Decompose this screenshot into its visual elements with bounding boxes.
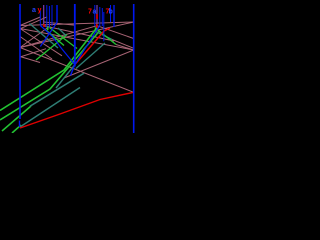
svg-text:a: a [93, 9, 97, 16]
blue worldline O114 [113, 5, 115, 27]
green tail left A [50, 28, 78, 49]
teal steep left [56, 65, 75, 89]
worldline B1 [39, 11, 41, 26]
green worldline G3 [2, 106, 31, 131]
signal A down2 [20, 29, 62, 56]
worldline M1 [103, 12, 105, 41]
green worldline G2 [0, 32, 99, 121]
signal L3 up [20, 49, 46, 57]
green tail right [95, 28, 116, 45]
red mark right cluster low [96, 24, 98, 28]
svg-text:7: 7 [88, 9, 92, 16]
blue worldline center [74, 4, 76, 67]
blue worldline left [19, 4, 21, 119]
left cluster verticals [40, 5, 52, 28]
signal D down-left [20, 26, 97, 48]
teal tail left X [58, 28, 66, 36]
right cluster verticals [95, 5, 111, 41]
signal E reflected [64, 50, 134, 78]
green mark cluster bottom [47, 27, 49, 31]
green tail left B [46, 30, 64, 46]
purple worldline J1 [96, 5, 98, 26]
worldline L1 [101, 8, 103, 26]
purple worldline C1 [43, 5, 45, 24]
svg-text:y: y [38, 7, 42, 14]
red long worldline [20, 92, 134, 128]
signal A down [20, 29, 134, 51]
signal A up1 [20, 17, 40, 26]
red steep worldline [75, 28, 110, 64]
signal M flat [44, 22, 76, 25]
right labels [88, 9, 113, 16]
blue diagonal below vertex [71, 65, 75, 76]
blue worldline right [133, 4, 135, 133]
teal worldline A [20, 88, 80, 128]
teal tail 0 left [30, 24, 59, 49]
signal C up steep [20, 26, 50, 48]
signal C down-right [44, 26, 114, 41]
worldline E1 [48, 6, 50, 28]
worldline I1 [94, 5, 96, 26]
worldline F1 [51, 5, 53, 26]
teal steep right [76, 43, 105, 69]
svg-text:b: b [109, 9, 113, 16]
worldline D1 [46, 5, 48, 28]
blue diagonal left [40, 26, 74, 65]
signal B down [20, 48, 134, 93]
red mark at cluster C1 [43, 24, 45, 27]
background [0, 0, 141, 133]
signal B down2 [20, 37, 52, 60]
signal dg continuation [116, 45, 134, 51]
blue diagonal G2b [40, 23, 57, 47]
signal B up [20, 22, 134, 48]
green ascending gC [36, 35, 67, 61]
worldline N1 [110, 5, 112, 22]
rosy light-signal lattice [20, 17, 134, 92]
signal flat0 [20, 22, 134, 26]
signal L3 down [20, 57, 40, 63]
green worldline G3b [12, 125, 21, 133]
blue diagonal right [75, 25, 100, 65]
signal dt continuation [112, 40, 134, 49]
green worldline G1 [0, 28, 97, 111]
signal A up2 [20, 17, 47, 29]
red mark right cluster [96, 14, 98, 19]
svg-text:a: a [32, 7, 36, 14]
left labels [32, 7, 42, 14]
teal worldline B [30, 73, 84, 106]
blue worldline G57 [56, 5, 58, 23]
worldline K1 [99, 7, 101, 26]
signal D down-right [97, 26, 134, 39]
teal tail right [95, 31, 112, 40]
blue stub bottom left [19, 121, 21, 128]
